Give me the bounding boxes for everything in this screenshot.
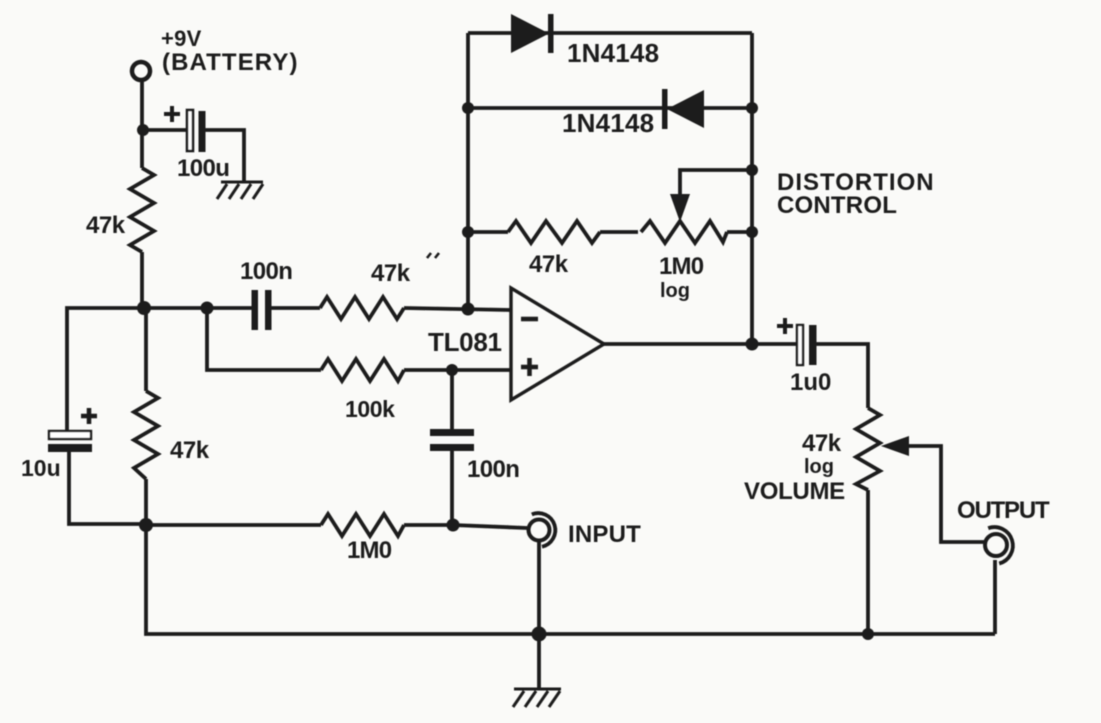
wire capacitor 10u to bottom node: [69, 452, 146, 524]
capacitor 1u0 plus sign: [777, 318, 793, 334]
node feedback right wiper junction: [746, 164, 758, 176]
svg-text:(BATTERY): (BATTERY): [162, 49, 299, 76]
capacitor 100n series plate 2: [265, 290, 272, 330]
capacitor 1u0 negative plate: [809, 325, 817, 365]
capacitor 10u positive plate: [49, 431, 91, 439]
svg-text:1M0: 1M0: [659, 253, 704, 280]
op-amp U1 TL081: [511, 288, 604, 400]
capacitor 10u plus sign: [81, 408, 97, 424]
node feedback left resistor junction: [462, 226, 474, 238]
svg-text:CONTROL: CONTROL: [777, 192, 897, 219]
wire input jack to ground rail: [537, 542, 541, 634]
resistor 47k feedback: [508, 221, 600, 243]
wire node A to resistor 47k lower: [144, 308, 148, 391]
resistor 100k: [321, 359, 404, 381]
capacitor 10u negative plate: [48, 444, 92, 452]
wire resistor 1M0 to input jack: [404, 525, 527, 528]
ground for 100u: [217, 182, 263, 199]
wire resistor 47k to node A: [140, 252, 144, 308]
wire feedback top row: [468, 31, 752, 35]
resistor 47k series: [320, 297, 404, 319]
wire ground stub: [537, 634, 541, 689]
svg-text:100k: 100k: [345, 396, 395, 422]
resistor 47k supply upper: [130, 168, 154, 252]
svg-text:47k: 47k: [86, 212, 126, 239]
svg-text:100n: 100n: [467, 456, 519, 483]
wire feedback left vertical: [466, 33, 470, 309]
op-amp inverting sign: [521, 317, 538, 322]
wire output jack to ground rail: [993, 560, 997, 634]
ground main: [513, 689, 561, 707]
svg-text:1N4148: 1N4148: [562, 108, 654, 138]
node output junction: [746, 338, 759, 351]
wire resistor 47k lower to bottom node: [144, 479, 148, 525]
node feedback right diode2 junction: [746, 102, 758, 114]
svg-text:OUTPUT: OUTPUT: [957, 497, 1050, 524]
capacitor 100u positive plate: [187, 110, 193, 151]
capacitor 100n series plate 1: [252, 290, 259, 330]
diode D2 1N4148 cathode bar: [662, 89, 668, 129]
wire resistor 47k series to op-amp inverting input: [404, 308, 511, 310]
svg-text:47k: 47k: [529, 251, 569, 278]
potentiometer 1M0 track: [641, 221, 727, 243]
wire capacitor 100n shunt to input row: [450, 451, 454, 525]
op-amp non-inverting sign: [521, 358, 538, 376]
wire feedback right vertical: [750, 33, 754, 344]
node bottom-left junction: [139, 518, 153, 532]
diode D1 1N4148 cathode bar: [548, 14, 554, 53]
svg-text:VOLUME: VOLUME: [744, 478, 845, 505]
svg-text:1M0: 1M0: [347, 537, 392, 564]
svg-text:1u0: 1u0: [790, 369, 831, 396]
node input-jack junction: [447, 519, 460, 532]
node volume ground junction: [862, 628, 874, 640]
wire capacitor 100u to ground: [205, 130, 244, 182]
input jack inner circle: [529, 520, 550, 541]
svg-text:47k: 47k: [371, 260, 411, 287]
wire node A left branch to capacitor 10u: [67, 308, 144, 431]
input jack outer arc: [532, 513, 556, 547]
potentiometer 47k wiper arrowhead: [881, 436, 909, 456]
svg-text:log: log: [804, 456, 834, 478]
svg-text:1N4148: 1N4148: [567, 38, 659, 68]
resistor 1M0 input: [321, 514, 404, 536]
potentiometer 47k wiper wire: [906, 446, 984, 542]
wire non-inverting input row: [207, 308, 321, 370]
diode D2 1N4148 body: [667, 90, 704, 128]
potentiometer 1M0 wiper wire: [680, 170, 752, 199]
wire capacitor 1u0 to volume pot: [816, 344, 868, 408]
node feedback left diode2 junction: [462, 102, 474, 114]
node ground rail junction: [532, 627, 547, 642]
diode D1 1N4148 body: [511, 14, 549, 53]
capacitor 100n shunt plate 2: [430, 444, 474, 451]
capacitor 100u negative plate: [199, 111, 206, 152]
wire feedback second row: [468, 106, 752, 110]
svg-text:10u: 10u: [21, 455, 61, 481]
wire battery terminal to supply node: [140, 80, 144, 168]
node input-divider junction: [201, 302, 214, 315]
wire op-amp output: [604, 342, 797, 346]
wire bottom node down to ground rail: [146, 525, 995, 634]
wire resistor 100k to op-amp non-inverting input: [404, 368, 511, 372]
wire volume pot to ground rail: [866, 490, 870, 634]
svg-text:100n: 100n: [240, 258, 292, 285]
capacitor 100n shunt plate 1: [430, 429, 474, 436]
wire pot to right vertical: [727, 230, 752, 234]
svg-text:47k: 47k: [802, 430, 842, 457]
wire supply node to capacitor 100u: [143, 128, 187, 132]
stray tick marks: [427, 253, 439, 258]
resistor 47k lower: [134, 391, 158, 479]
wire non-inverting node to capacitor 100n shunt: [450, 370, 454, 431]
output jack inner circle: [985, 534, 1007, 556]
svg-text:47k: 47k: [170, 437, 210, 464]
potentiometer 1M0 wiper arrowhead: [670, 194, 690, 222]
svg-text:100u: 100u: [177, 155, 229, 182]
wire feedback third row left: [468, 230, 508, 234]
wire bottom node to resistor 1M0: [146, 523, 321, 527]
battery terminal +9V: [132, 62, 150, 80]
node inverting input junction: [462, 303, 475, 316]
wire node A to capacitor 100n input: [144, 306, 252, 310]
node feedback right resistor junction: [746, 226, 758, 238]
output jack outer arc: [988, 527, 1013, 563]
svg-text:+9V: +9V: [161, 26, 202, 51]
capacitor C 100u plus sign: [164, 106, 180, 122]
node A junction: [137, 301, 151, 315]
capacitor 1u0 positive plate: [797, 325, 803, 365]
svg-text:TL081: TL081: [428, 327, 502, 357]
svg-text:log: log: [660, 280, 690, 302]
node non-inverting junction: [446, 364, 458, 376]
potentiometer 47k volume track: [856, 408, 880, 490]
wire capacitor 100n to resistor 47k series: [271, 306, 320, 310]
wire between feedback resistor and pot: [600, 230, 638, 234]
svg-text:INPUT: INPUT: [568, 521, 641, 548]
node supply junction: [137, 124, 149, 136]
